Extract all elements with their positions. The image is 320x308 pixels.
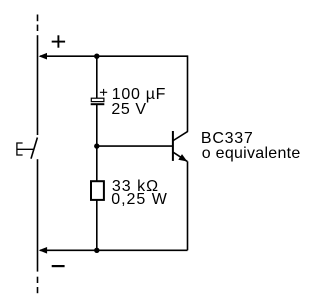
node junction bottom bbox=[94, 248, 99, 253]
wire resistor top lead bbox=[96, 146, 98, 181]
wire resistor bottom lead bbox=[96, 200, 98, 250]
wire right rail collector side bbox=[187, 55, 189, 131]
wire left rail lower solid bbox=[37, 159, 39, 271]
label - (negative terminal) bbox=[52, 265, 65, 267]
wire top with arrow to + terminal bbox=[40, 55, 188, 57]
resistor R1 body bbox=[91, 181, 104, 200]
node junction base bbox=[94, 143, 99, 148]
transistor Q1 emitter with arrow bbox=[173, 152, 187, 161]
capacitor C1 bottom plate bbox=[91, 103, 105, 105]
wire right rail emitter side bbox=[187, 161, 189, 250]
boundary line (dash-dot) bottom dashes bbox=[37, 277, 39, 294]
capacitor polarity + mark bbox=[100, 89, 107, 96]
switch S1 actuator bbox=[17, 143, 34, 155]
svg-text:0,25 W: 0,25 W bbox=[111, 191, 168, 208]
capacitor C1 top plate (boxed, polarized) bbox=[91, 98, 104, 101]
label + (positive terminal) bbox=[52, 35, 65, 47]
switch S1 blade bbox=[31, 138, 37, 159]
wire capacitor bottom lead bbox=[96, 105, 98, 146]
transistor Q1 collector bbox=[173, 131, 188, 140]
wire base bbox=[97, 145, 173, 147]
transistor Q1 base bar bbox=[172, 131, 174, 161]
svg-text:o equivalente: o equivalente bbox=[202, 145, 301, 162]
wire left rail upper solid bbox=[37, 35, 39, 135]
wire capacitor top lead bbox=[96, 56, 98, 98]
node junction top (cap / supply) bbox=[94, 54, 99, 59]
svg-text:25 V: 25 V bbox=[111, 101, 146, 118]
boundary line (dash-dot) top dashes bbox=[37, 15, 39, 32]
wire bottom with arrow to - terminal bbox=[40, 249, 188, 251]
